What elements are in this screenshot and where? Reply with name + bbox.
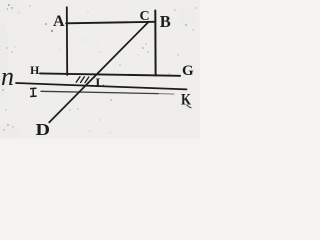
svg-text:C: C [140,9,150,24]
svg-text:B: B [160,12,171,31]
svg-text:L: L [96,75,105,90]
svg-text:H: H [30,63,40,77]
svg-text:A: A [53,13,65,30]
svg-text:D: D [36,120,51,139]
svg-text:G: G [182,63,194,79]
svg-text:n: n [1,62,14,91]
svg-text:K: K [181,92,191,109]
